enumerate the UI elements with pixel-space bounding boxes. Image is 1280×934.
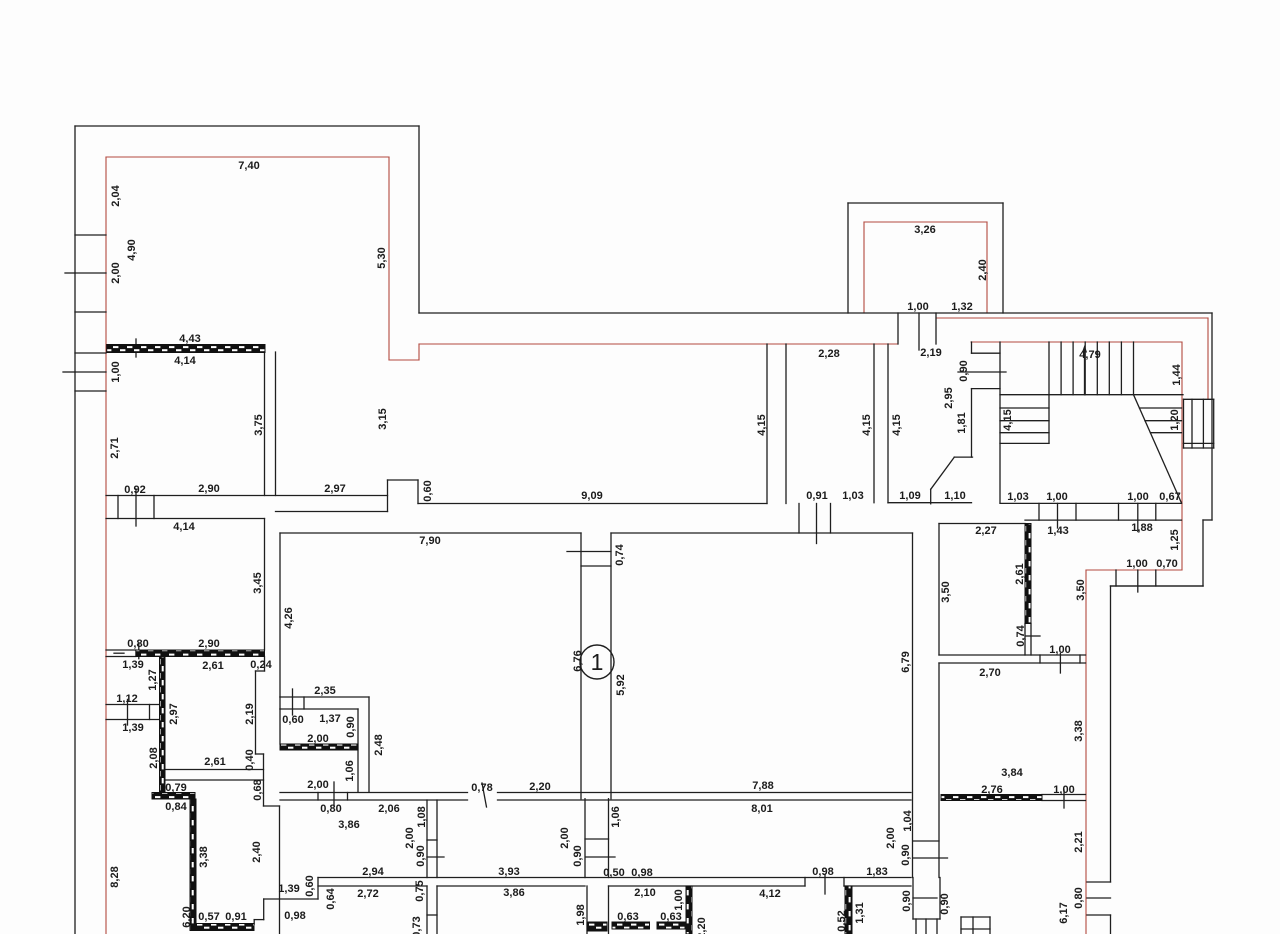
svg-text:4,14: 4,14: [173, 521, 195, 533]
svg-text:2,20: 2,20: [696, 917, 708, 934]
svg-text:0,52: 0,52: [836, 910, 848, 931]
svg-text:2,70: 2,70: [979, 667, 1000, 679]
svg-text:1,10: 1,10: [944, 490, 965, 502]
svg-text:1,81: 1,81: [956, 412, 968, 433]
svg-text:1,00: 1,00: [1053, 784, 1074, 796]
svg-text:1,43: 1,43: [1047, 525, 1068, 537]
svg-text:2,06: 2,06: [378, 803, 399, 815]
svg-text:0,80: 0,80: [1073, 887, 1085, 908]
svg-text:7,40: 7,40: [238, 160, 259, 172]
svg-text:8,28: 8,28: [109, 866, 121, 887]
svg-text:0,68: 0,68: [252, 779, 264, 800]
svg-text:6,17: 6,17: [1058, 902, 1070, 923]
svg-text:2,48: 2,48: [373, 734, 385, 755]
svg-text:6,20: 6,20: [181, 906, 193, 927]
svg-text:1,00: 1,00: [1046, 491, 1067, 503]
svg-text:1,32: 1,32: [951, 301, 972, 313]
svg-text:2,61: 2,61: [202, 660, 223, 672]
svg-text:1,39: 1,39: [122, 722, 143, 734]
svg-text:1,00: 1,00: [1126, 558, 1147, 570]
svg-text:2,97: 2,97: [324, 483, 345, 495]
svg-text:2,00: 2,00: [307, 733, 328, 745]
svg-text:2,72: 2,72: [357, 888, 378, 900]
svg-text:2,71: 2,71: [109, 437, 121, 458]
svg-text:0,70: 0,70: [1156, 558, 1177, 570]
svg-text:3,93: 3,93: [498, 866, 519, 878]
svg-text:2,00: 2,00: [885, 827, 897, 848]
svg-text:1,39: 1,39: [122, 659, 143, 671]
svg-text:3,26: 3,26: [914, 224, 935, 236]
svg-text:4,15: 4,15: [891, 414, 903, 435]
svg-text:1,09: 1,09: [899, 490, 920, 502]
svg-text:0,60: 0,60: [422, 480, 434, 501]
svg-text:3,45: 3,45: [252, 572, 264, 593]
svg-text:0,40: 0,40: [244, 749, 256, 770]
svg-text:2,20: 2,20: [529, 781, 550, 793]
svg-text:0,63: 0,63: [660, 911, 681, 923]
svg-text:2,19: 2,19: [244, 703, 256, 724]
svg-text:0,84: 0,84: [165, 801, 187, 813]
svg-text:2,94: 2,94: [362, 866, 384, 878]
svg-text:0,98: 0,98: [812, 866, 833, 878]
svg-text:1,37: 1,37: [319, 713, 340, 725]
svg-text:2,00: 2,00: [307, 779, 328, 791]
svg-text:1,00: 1,00: [110, 361, 122, 382]
svg-text:0,63: 0,63: [617, 911, 638, 923]
svg-text:0,74: 0,74: [1015, 624, 1027, 646]
svg-text:1,44: 1,44: [1171, 363, 1183, 385]
svg-text:4,15: 4,15: [756, 414, 768, 435]
svg-text:8,01: 8,01: [751, 803, 772, 815]
svg-text:1: 1: [591, 649, 604, 675]
svg-text:2,19: 2,19: [920, 347, 941, 359]
svg-text:2,61: 2,61: [204, 756, 225, 768]
svg-text:0,90: 0,90: [415, 845, 427, 866]
svg-text:1,98: 1,98: [575, 904, 587, 925]
svg-text:7,88: 7,88: [752, 780, 773, 792]
svg-text:3,50: 3,50: [1075, 579, 1087, 600]
svg-text:0,91: 0,91: [806, 490, 827, 502]
svg-text:0,90: 0,90: [572, 845, 584, 866]
svg-text:7,90: 7,90: [419, 535, 440, 547]
svg-text:4,26: 4,26: [283, 607, 295, 628]
svg-text:3,15: 3,15: [377, 408, 389, 429]
svg-text:0,90: 0,90: [958, 360, 970, 381]
svg-text:0,80: 0,80: [320, 803, 341, 815]
svg-text:1,04: 1,04: [902, 809, 914, 831]
svg-text:2,21: 2,21: [1073, 831, 1085, 852]
svg-text:1,00: 1,00: [907, 301, 928, 313]
svg-text:4,12: 4,12: [759, 888, 780, 900]
svg-text:0,75: 0,75: [414, 880, 426, 901]
svg-text:0,73: 0,73: [411, 916, 423, 934]
svg-text:1,00: 1,00: [1049, 644, 1070, 656]
svg-text:2,40: 2,40: [251, 841, 263, 862]
svg-text:6,76: 6,76: [572, 650, 584, 671]
svg-text:2,40: 2,40: [977, 259, 989, 280]
svg-text:5,30: 5,30: [376, 247, 388, 268]
svg-text:0,60: 0,60: [282, 714, 303, 726]
svg-text:2,76: 2,76: [981, 784, 1002, 796]
svg-text:3,38: 3,38: [1073, 720, 1085, 741]
svg-text:1,00: 1,00: [1127, 491, 1148, 503]
svg-text:1,06: 1,06: [610, 806, 622, 827]
svg-text:0,98: 0,98: [631, 867, 652, 879]
svg-text:4,90: 4,90: [126, 239, 138, 260]
svg-text:0,24: 0,24: [250, 659, 272, 671]
svg-text:2,10: 2,10: [634, 887, 655, 899]
svg-text:5,92: 5,92: [615, 674, 627, 695]
svg-text:3,38: 3,38: [198, 846, 210, 867]
svg-text:1,08: 1,08: [416, 806, 428, 827]
svg-text:0,78: 0,78: [471, 782, 492, 794]
svg-text:0,92: 0,92: [124, 484, 145, 496]
svg-text:1,25: 1,25: [1169, 529, 1181, 550]
svg-text:2,04: 2,04: [110, 184, 122, 206]
svg-text:6,79: 6,79: [900, 651, 912, 672]
svg-text:2,00: 2,00: [559, 827, 571, 848]
svg-text:3,50: 3,50: [940, 581, 952, 602]
svg-text:2,28: 2,28: [818, 348, 839, 360]
svg-text:2,27: 2,27: [975, 525, 996, 537]
svg-text:0,64: 0,64: [325, 887, 337, 909]
svg-text:1,20: 1,20: [1169, 409, 1181, 430]
svg-text:3,84: 3,84: [1001, 767, 1023, 779]
svg-text:0,50: 0,50: [603, 867, 624, 879]
svg-text:1,27: 1,27: [147, 669, 159, 690]
svg-text:2,90: 2,90: [198, 638, 219, 650]
svg-text:0,80: 0,80: [127, 638, 148, 650]
svg-text:2,08: 2,08: [148, 747, 160, 768]
svg-text:3,75: 3,75: [253, 414, 265, 435]
svg-text:3,86: 3,86: [503, 887, 524, 899]
svg-text:1,12: 1,12: [116, 693, 137, 705]
svg-text:4,14: 4,14: [174, 355, 196, 367]
svg-text:0,90: 0,90: [900, 844, 912, 865]
svg-text:1,88: 1,88: [1131, 522, 1152, 534]
svg-text:2,00: 2,00: [110, 262, 122, 283]
svg-text:2,35: 2,35: [314, 685, 335, 697]
svg-text:4,43: 4,43: [179, 333, 200, 345]
svg-text:4,15: 4,15: [1002, 409, 1014, 430]
svg-text:1,06: 1,06: [344, 760, 356, 781]
svg-text:2,61: 2,61: [1014, 563, 1026, 584]
svg-text:0,74: 0,74: [614, 543, 626, 565]
svg-text:0,90: 0,90: [939, 893, 951, 914]
svg-text:4,79: 4,79: [1079, 349, 1100, 361]
svg-text:0,57: 0,57: [198, 911, 219, 923]
svg-text:2,95: 2,95: [943, 387, 955, 408]
svg-text:1,03: 1,03: [1007, 491, 1028, 503]
svg-text:1,39: 1,39: [278, 883, 299, 895]
svg-text:0,79: 0,79: [165, 782, 186, 794]
svg-text:1,83: 1,83: [866, 866, 887, 878]
svg-text:0,90: 0,90: [345, 716, 357, 737]
svg-text:0,90: 0,90: [901, 890, 913, 911]
svg-text:0,98: 0,98: [284, 910, 305, 922]
svg-text:1,03: 1,03: [842, 490, 863, 502]
svg-text:2,97: 2,97: [168, 703, 180, 724]
svg-text:0,60: 0,60: [304, 875, 316, 896]
svg-text:0,91: 0,91: [225, 911, 246, 923]
svg-text:2,90: 2,90: [198, 483, 219, 495]
svg-text:9,09: 9,09: [581, 490, 602, 502]
svg-text:1,31: 1,31: [854, 902, 866, 923]
svg-text:1,00: 1,00: [673, 889, 685, 910]
svg-text:4,15: 4,15: [861, 414, 873, 435]
svg-text:0,67: 0,67: [1159, 491, 1180, 503]
svg-text:3,86: 3,86: [338, 819, 359, 831]
